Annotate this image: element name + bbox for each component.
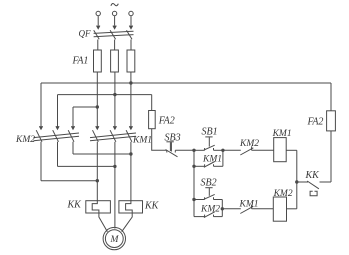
- supply terminal circle L3: [129, 11, 133, 15]
- svg-text:FA1: FA1: [72, 56, 89, 67]
- contactor KM1 pole3 arrow: [129, 126, 132, 129]
- contactor KM2 linkage upper: [34, 133, 80, 138]
- wire crossover mid: [58, 165, 115, 167]
- wire bus L3 horizontal y83: [41, 82, 331, 84]
- thermal relay KK heater right box: [119, 201, 143, 213]
- svg-text:FA2: FA2: [307, 117, 324, 128]
- motor M inner circle: [105, 230, 123, 248]
- wire pole1 to fuse: [97, 40, 99, 51]
- svg-text:KM2: KM2: [239, 139, 259, 149]
- thermal relay KK heater right conductor notch: [126, 201, 133, 213]
- svg-text:QF: QF: [79, 29, 91, 39]
- pushbutton SB2 start rev contact: [194, 188, 222, 200]
- wire KM1 pole3 output drop: [130, 142, 132, 201]
- breaker QF pole 3 arrow: [129, 26, 132, 29]
- wire KM2 pole1 output drop: [40, 142, 42, 181]
- supply terminal circle L1: [96, 11, 100, 15]
- svg-text:KM2: KM2: [200, 205, 220, 215]
- contactor KM1 linkage lower: [90, 136, 136, 141]
- breaker QF linkage bar lower: [94, 35, 134, 37]
- contactor KM1 linkage upper: [90, 133, 136, 138]
- fuse FA2 left lead lower: [152, 129, 167, 151]
- wire SB1 to node B: [214, 149, 223, 151]
- svg-text:KK: KK: [67, 200, 83, 211]
- contactor KM2 pole1 blade: [36, 130, 42, 142]
- wire phase1 vertical below fuse: [96, 72, 98, 129]
- svg-text:KM2: KM2: [15, 135, 35, 145]
- node B junction: [221, 149, 224, 152]
- contactor KM1 pole3 blade: [126, 130, 132, 142]
- svg-text:KM1: KM1: [132, 136, 152, 146]
- pushbutton SB1 start fwd contact: [204, 137, 215, 150]
- svg-text:KM1: KM1: [272, 129, 292, 139]
- wire branch B rejoin vertical: [221, 200, 223, 217]
- wire bus L3 drop to KM2 pole1: [40, 83, 42, 129]
- node L2 tap junction: [113, 93, 116, 96]
- fuse FA1 element 2: [111, 50, 119, 72]
- node E junction: [221, 207, 224, 210]
- wire branch B left rail: [193, 166, 195, 216]
- wire left heater to motor: [99, 213, 108, 232]
- node A2 junction: [192, 165, 195, 168]
- breaker QF pole 2 arrow: [113, 26, 116, 29]
- breaker QF pole 3 blade: [127, 30, 133, 39]
- contact KM1 aux NO self-hold: [194, 162, 223, 168]
- svg-text:M: M: [110, 235, 120, 245]
- contact KM1 NC interlock: [240, 205, 273, 214]
- wire bus L1 drop to KM2 pole3: [72, 107, 74, 129]
- coil KM2: [273, 197, 286, 221]
- wire node A to SB1: [194, 149, 205, 151]
- wire bus L1 horizontal y107: [73, 106, 97, 108]
- contact KK thermal NC: [297, 181, 331, 196]
- wire pole3 to fuse: [130, 40, 132, 51]
- contactor KM2 pole1 arrow: [39, 126, 42, 129]
- contactor KM2 linkage lower: [34, 136, 80, 141]
- node crossover low junction: [96, 179, 99, 182]
- svg-text:SB2: SB2: [201, 178, 217, 189]
- node C junction: [295, 180, 298, 183]
- node L3 tap junction: [129, 81, 132, 84]
- svg-text:FA2: FA2: [158, 116, 175, 127]
- contactor KM2 pole3 arrow: [71, 126, 74, 129]
- node L1 tap junction: [96, 105, 99, 108]
- wire SB3 to node A: [175, 149, 194, 151]
- wire crossover low: [41, 180, 97, 182]
- contactor KM1 pole2 blade: [110, 130, 116, 142]
- fuse FA2 right body: [327, 111, 336, 131]
- wire branch up to node B: [222, 150, 224, 166]
- wire node E to KM1 NC: [222, 208, 241, 210]
- wire KM2 pole3 output drop: [72, 142, 74, 154]
- AC tilde symbol: [111, 3, 118, 5]
- breaker QF pole 2 blade: [110, 30, 116, 39]
- fuse FA2 right lead lower: [330, 131, 332, 182]
- pushbutton SB3 stop contact: [166, 142, 178, 157]
- supply terminal circle L2: [112, 11, 116, 15]
- wire right heater to motor: [122, 213, 133, 232]
- fuse FA2 right lead upper: [330, 83, 332, 111]
- wire KM1 pole2 output drop to motor: [114, 142, 116, 229]
- contactor KM2 pole2 arrow: [56, 126, 59, 129]
- wire L3 lead: [130, 16, 132, 26]
- wire L1 lead: [97, 16, 99, 26]
- svg-text:SB1: SB1: [202, 127, 218, 138]
- fuse FA2 left lead upper: [151, 95, 153, 111]
- breaker QF linkage bar upper: [94, 31, 134, 33]
- svg-text:SB3: SB3: [165, 133, 181, 144]
- wire phase3 vertical below fuse: [130, 72, 132, 129]
- contactor KM1 pole1 blade: [93, 130, 99, 142]
- wire crossover high: [73, 153, 131, 155]
- coil KM1: [274, 138, 287, 162]
- wire right riser: [296, 150, 298, 209]
- contactor KM1 pole1 arrow: [96, 126, 99, 129]
- fuse FA1 element 3: [127, 50, 135, 72]
- svg-text:KM1: KM1: [239, 200, 259, 210]
- node A junction: [192, 149, 195, 152]
- svg-text:KK: KK: [305, 170, 321, 181]
- svg-text:KM2: KM2: [273, 189, 293, 199]
- wire coil KM2 out: [287, 208, 297, 210]
- breaker QF pole 1 blade: [94, 30, 100, 39]
- fuse FA1 element 1: [94, 50, 102, 72]
- wire coil KM1 out: [286, 149, 297, 151]
- wire L2 lead: [114, 16, 116, 26]
- node crossover high junction: [129, 152, 132, 155]
- wire phase2 vertical below fuse: [114, 72, 116, 129]
- contact KM2 aux NO self-hold: [194, 212, 222, 218]
- thermal relay KK heater left box: [86, 201, 111, 213]
- wire KM1 pole1 output drop: [96, 142, 98, 201]
- wire KM2 pole2 output drop: [57, 142, 59, 167]
- fuse FA2 left body: [149, 111, 156, 129]
- node D junction: [192, 198, 195, 201]
- wire pole2 to fuse: [114, 40, 116, 51]
- motor M outer circle: [103, 227, 125, 249]
- thermal relay KK heater left conductor notch: [92, 201, 99, 213]
- contactor KM1 pole2 arrow: [113, 126, 116, 129]
- wire bus L2 horizontal y94.6: [58, 94, 152, 96]
- wire branch down node A: [193, 150, 195, 166]
- contactor KM2 pole3 blade: [68, 130, 74, 142]
- node crossover mid junction: [113, 165, 116, 168]
- wire bus L2 drop to KM2 pole2: [57, 95, 59, 129]
- svg-text:KK: KK: [144, 201, 160, 212]
- svg-text:KM1: KM1: [202, 155, 222, 165]
- contactor KM2 pole2 blade: [53, 130, 59, 142]
- wire node B to KM2 NC: [223, 149, 241, 151]
- contact KM2 NC interlock: [240, 146, 273, 155]
- breaker QF pole 1 arrow: [97, 26, 100, 29]
